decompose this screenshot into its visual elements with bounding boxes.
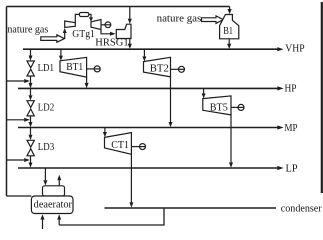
block arrow: nature gas into gas turbine <box>41 35 65 42</box>
svg-text:LD1: LD1 <box>38 63 54 74</box>
svg-text:BT2: BT2 <box>150 64 169 75</box>
wire: LD2 outlet to MP with arrow <box>30 116 32 122</box>
wire: left feedwater riser <box>6 7 8 197</box>
svg-text:nature gas: nature gas <box>7 24 48 36</box>
wire: compressor to combustor <box>75 14 79 22</box>
turbine CT1 <box>105 133 132 155</box>
shaft of CT1 <box>131 146 139 148</box>
boiler B1 <box>220 15 239 39</box>
valve LD2 <box>27 101 34 116</box>
svg-text:GTg1: GTg1 <box>72 29 95 40</box>
wire: top feedwater line <box>7 6 230 8</box>
shaft of BT5 <box>231 106 238 108</box>
svg-text:LP: LP <box>286 163 298 174</box>
valve LD3 <box>27 140 34 156</box>
svg-text:HP: HP <box>285 83 297 94</box>
generator of CT1 <box>140 144 146 150</box>
svg-text:CT1: CT1 <box>111 140 129 151</box>
turbine BT1 <box>60 57 87 77</box>
wire: BT1 exhaust to HP with arrow <box>86 77 88 83</box>
svg-text:BT5: BT5 <box>210 102 228 113</box>
wire: condensate return into deaerator with arrow <box>58 220 60 225</box>
wire: feedwater branch into HRSG1 with arrow <box>129 7 131 19</box>
wire: BT5 exhaust to LP with arrow (crosses MP) <box>230 115 232 162</box>
shaft of BT2 <box>171 68 179 70</box>
generator of BT1 <box>94 66 100 72</box>
wire: B1 steam to VHP with arrow <box>228 39 230 44</box>
wire: deaerator vent with arrow <box>58 180 60 186</box>
svg-text:deaerator: deaerator <box>34 199 73 210</box>
gas turbine GTg1 : turbine section <box>91 20 101 30</box>
wire: water injection to LD3 outlet with arrow <box>7 159 25 161</box>
VHP header <box>23 48 278 50</box>
wire: VHP to BT1 with arrow <box>60 49 62 55</box>
turbine BT2 <box>144 57 171 77</box>
wire: water injection to LD1 outlet with arrow <box>7 80 25 82</box>
wire: BT2 exhaust to MP with arrow (crosses HP) <box>170 77 172 122</box>
wire: LD3 outlet to LP with arrow <box>30 156 32 163</box>
turbine BT5 <box>203 96 231 115</box>
svg-text:HRSG1: HRSG1 <box>95 38 128 49</box>
wire: water injection to LD2 outlet with arrow <box>7 119 25 121</box>
wire: LP steam into deaerator dome with arrow <box>44 168 46 180</box>
valve LD1 <box>27 61 34 76</box>
wire: riser joins deaerator top-left <box>7 195 32 197</box>
combustor of GTg1 <box>79 13 88 17</box>
gas turbine GTg1 : compressor <box>65 21 76 28</box>
shaft of BT1 <box>87 68 95 70</box>
svg-text:VHP: VHP <box>285 44 304 55</box>
right border line <box>321 2 323 193</box>
wire: MP to CT1 with arrow <box>104 128 106 133</box>
wire: HP to LD2 with arrow <box>30 88 32 95</box>
wire: CT1 exhaust to condenser with arrow (crosses LP) <box>130 154 132 202</box>
svg-text:nature gas: nature gas <box>157 13 202 25</box>
wire: VHP to LD1 with arrow <box>30 49 32 55</box>
wire: HRSG1 steam to VHP with arrow <box>129 39 131 44</box>
HRSG1 body <box>116 24 131 38</box>
svg-text:LD2: LD2 <box>38 102 54 113</box>
condenser line <box>105 207 277 209</box>
svg-text:LD3: LD3 <box>38 142 54 153</box>
gas turbine GTg1 : air inlet arrow <box>64 33 66 39</box>
wire: MP to LD3 with arrow <box>30 128 32 135</box>
generator of GTg1 <box>105 22 111 28</box>
generator of BT2 <box>179 66 185 72</box>
wire: bottom condensate line <box>59 208 164 225</box>
deaerator vessel <box>31 196 73 214</box>
svg-text:BT1: BT1 <box>66 62 83 73</box>
wire: GT exhaust to HRSG1 with arrow <box>101 30 110 34</box>
LP header <box>18 167 278 169</box>
wire: combustor to turbine with arrow <box>89 14 91 17</box>
deaerator dome <box>43 186 65 196</box>
svg-text:MP: MP <box>285 123 298 134</box>
generator of BT5 <box>238 104 244 110</box>
wire: VHP to BT2 with arrow <box>143 49 145 56</box>
wire: feedwater drop into B1 with arrow <box>229 7 231 10</box>
HP header <box>18 87 278 89</box>
wire: makeup water into deaerator with arrow <box>42 220 44 229</box>
svg-text:condenser: condenser <box>281 203 322 214</box>
MP header <box>18 127 278 129</box>
block arrow: nature gas into B1 <box>202 16 224 24</box>
wire: HP to BT5 with arrow <box>203 88 205 93</box>
svg-text:B1: B1 <box>223 26 233 37</box>
shaft of GTg1 <box>101 24 105 26</box>
wire: LD1 outlet to HP with arrow <box>30 76 32 83</box>
